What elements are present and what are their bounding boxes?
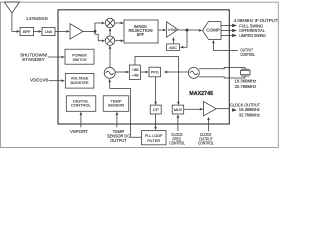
wire BPF to LNA [34, 30, 39, 32]
wire top mixer to image BPF [115, 22, 121, 24]
wire bottom mixer to image BPF [115, 40, 121, 42]
wire crystal osc to PFD [167, 71, 188, 73]
mixer M1 (top) [105, 18, 114, 27]
wire COMP output differential [221, 30, 232, 32]
svg-text:MAX2745: MAX2745 [189, 91, 213, 97]
oscillator XOSC [188, 67, 199, 78]
block DIGITAL CONTROL [66, 96, 96, 112]
svg-text:16.368MHz: 16.368MHz [235, 79, 257, 84]
svg-text:COMP: COMP [206, 27, 220, 32]
block VOLTAGE BOOSTER [65, 73, 94, 88]
filter BPF [20, 27, 34, 35]
wire LO bottom mixer to top mixer [109, 31, 111, 37]
wire shutdown to power switch [48, 56, 62, 58]
wire clock output control to buffer [208, 120, 210, 132]
svg-text:AGC: AGC [169, 45, 177, 50]
wire VCO to divider [115, 71, 126, 73]
amplifier clock output buffer [203, 102, 216, 116]
svg-text:32.768MHz: 32.768MHz [235, 84, 257, 89]
wire MUX to clock amp [184, 108, 200, 110]
block POWER SWITCH [65, 49, 94, 64]
figure border [0, 2, 278, 147]
svg-text:VSPORT: VSPORT [70, 129, 88, 134]
wire crystal bottom lead [199, 76, 245, 78]
svg-text:BOOSTER: BOOSTER [71, 80, 89, 85]
wire temp sensor dc output [116, 115, 118, 128]
svg-text:MUX: MUX [174, 108, 183, 112]
svg-text:CONTROL: CONTROL [198, 141, 214, 146]
oscillator VCO [104, 67, 115, 78]
comparator COMP [203, 22, 222, 40]
block PFD [149, 67, 160, 77]
block PLL LOOP FILTER [142, 131, 167, 145]
svg-text:SENSOR: SENSOR [108, 103, 125, 108]
svg-text:LNA: LNA [45, 29, 53, 34]
filter U2 IMAGE REJECTION BPF [124, 20, 158, 43]
wire divider to PFD [140, 71, 145, 73]
svg-text:16.368MHz: 16.368MHz [239, 107, 260, 112]
wire junction to AGC [183, 30, 187, 47]
wire PLL loop filter feedback to VCO [110, 82, 142, 138]
wire amp to junction [83, 30, 95, 32]
wire reference to MUX [177, 72, 179, 102]
wire clock freq control to MUX [177, 117, 179, 131]
svg-text:1.57542GHz: 1.57542GHz [26, 16, 48, 21]
wire VGA to COMP [178, 29, 199, 31]
wire junction to top mixer [95, 23, 102, 31]
wire VDD1V8 to voltage booster [49, 80, 62, 82]
svg-text:BPF: BPF [23, 29, 31, 34]
amplifier VGA [167, 22, 179, 37]
divider DIV 96/48 [129, 65, 140, 80]
block AGC [167, 44, 180, 51]
wire COMP output limited swing [221, 35, 232, 37]
block CP charge pump [150, 105, 161, 114]
MAX2745 main block outline [58, 10, 229, 124]
wire image BPF to VGA [158, 29, 163, 31]
wire AGC to VGA [172, 40, 174, 44]
wire LNA to input amp [55, 30, 66, 32]
wire reference branch to divider [135, 56, 178, 72]
svg-text:÷48: ÷48 [131, 73, 138, 77]
svg-text:SWITCH: SWITCH [73, 57, 87, 62]
svg-text:÷96: ÷96 [131, 68, 138, 72]
wire VSPORT to digital control [80, 115, 82, 128]
svg-text:CONTROL: CONTROL [169, 141, 185, 146]
svg-text:OUTPUT: OUTPUT [110, 138, 127, 143]
svg-text:VDD1V8: VDD1V8 [30, 78, 49, 83]
amplifier A1 input amp [70, 24, 83, 39]
block TEMP SENSOR [103, 96, 129, 112]
svg-text:VGA: VGA [168, 27, 177, 32]
wire COMP output full swing [221, 25, 232, 27]
svg-text:BPF: BPF [137, 32, 145, 37]
svg-text:CP: CP [153, 107, 159, 112]
node VGA output junction [186, 29, 189, 32]
block MUX [172, 105, 184, 114]
wire PFD to CP [155, 77, 157, 102]
node RF split junction [94, 30, 97, 33]
svg-text:PFD: PFD [151, 69, 159, 74]
wire clock amp to output [216, 108, 229, 110]
wire CP to PLL loop filter [155, 114, 157, 127]
wire VCO to bottom mixer (LO) [109, 49, 111, 68]
svg-text:32.768MHz: 32.768MHz [239, 113, 260, 118]
svg-text:FILTER: FILTER [147, 138, 160, 143]
svg-text:CONTROL: CONTROL [71, 103, 91, 108]
svg-text:LIMITED SWING: LIMITED SWING [239, 33, 266, 38]
wire crystal top lead [199, 67, 245, 69]
wire antenna to BPF [12, 30, 17, 32]
svg-text:CONTROL: CONTROL [240, 52, 255, 57]
mixer M2 (bottom) [105, 36, 114, 45]
wire junction to bottom mixer [95, 31, 102, 40]
crystal Y1 [241, 69, 250, 76]
amplifier LNA [42, 27, 55, 35]
antenna ANT [4, 2, 19, 31]
svg-text:STANDBY: STANDBY [22, 57, 45, 62]
wire OUTPUT CONTROL to COMP [213, 43, 238, 51]
